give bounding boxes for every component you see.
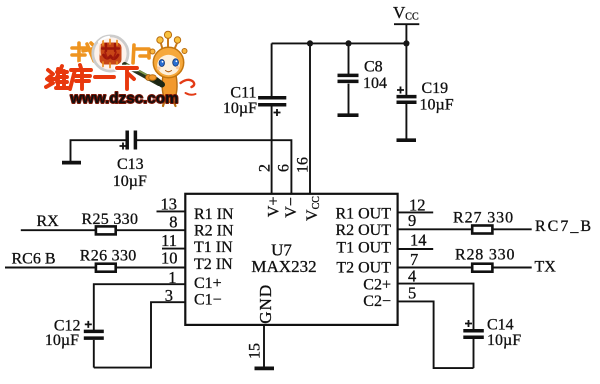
ground bar pin15 <box>255 366 275 370</box>
svg-text:V−: V− <box>283 197 300 218</box>
pin number 15 rotated <box>246 343 263 359</box>
chip icon inside magnifier <box>100 40 122 68</box>
svg-text:10µF: 10µF <box>45 332 79 349</box>
svg-text:RC7_B: RC7_B <box>535 218 593 235</box>
svg-text:10µF: 10µF <box>487 332 521 349</box>
resistor R28 <box>472 264 492 272</box>
wire C11 upper branch <box>271 43 273 96</box>
svg-text:TX: TX <box>535 258 557 275</box>
svg-text:R1 OUT: R1 OUT <box>335 206 391 223</box>
wire C19 branch <box>405 43 407 95</box>
svg-text:6: 6 <box>276 164 293 172</box>
plus sign C14 <box>465 320 472 327</box>
svg-text:C2+: C2+ <box>363 277 391 294</box>
svg-text:10: 10 <box>161 249 178 268</box>
wire C8 lower stem <box>348 84 350 114</box>
svg-text:T1 IN: T1 IN <box>194 239 233 256</box>
red characters wei ku yi xia <box>46 65 137 89</box>
IC pin name V- rotated <box>283 197 300 218</box>
plus sign C12 <box>85 321 92 328</box>
mascot arm <box>149 75 157 81</box>
wire pin9 to RC7_B <box>398 228 532 230</box>
wire C13 to pin6 V- <box>137 140 292 194</box>
wire C8 branch <box>348 43 350 74</box>
capacitor C8 plates <box>338 75 359 81</box>
wire C12 bottom stem <box>93 340 95 368</box>
svg-text:2: 2 <box>257 164 274 172</box>
pin number 2 rotated <box>257 164 274 172</box>
IC U7 box <box>185 194 397 325</box>
ground bar C19 <box>397 138 417 142</box>
wire GND pin15 <box>263 325 265 367</box>
capacitor C11 plates <box>258 98 286 105</box>
wire pin16 Vcc <box>309 43 311 193</box>
svg-text:T2 IN: T2 IN <box>194 256 233 273</box>
wire RC6B to pin10 <box>5 267 185 269</box>
svg-text:R2 IN: R2 IN <box>194 223 234 240</box>
capacitor C13 plates <box>127 131 135 150</box>
resistor R25 <box>96 226 116 234</box>
svg-text:C19: C19 <box>422 80 449 97</box>
svg-text:T2 OUT: T2 OUT <box>336 259 391 276</box>
wire pin11 stub <box>162 248 185 250</box>
svg-text:C8: C8 <box>364 58 383 75</box>
mascot head <box>153 47 183 77</box>
svg-text:R25 330: R25 330 <box>82 211 139 228</box>
svg-text:R28 330: R28 330 <box>455 247 515 264</box>
wire pin12 stub <box>398 211 434 213</box>
ground bar C8 <box>338 113 359 117</box>
svg-text:10µF: 10µF <box>113 173 147 190</box>
svg-text:C2−: C2− <box>363 293 391 310</box>
wire pin3 down and across <box>94 302 186 367</box>
svg-text:C13: C13 <box>117 156 144 173</box>
plus sign C13 <box>120 143 127 150</box>
wire pin13 stub <box>157 210 186 212</box>
mascot body <box>162 75 177 102</box>
capacitor C14 plates <box>463 331 484 337</box>
plus sign C11 <box>274 109 281 116</box>
svg-text:9: 9 <box>408 211 416 230</box>
IC pin name V+ rotated <box>266 197 283 218</box>
mascot side antennae <box>150 49 155 54</box>
svg-text:3: 3 <box>165 286 173 305</box>
logo watermark <box>46 31 196 107</box>
resistor R26 <box>96 264 116 272</box>
junction dot B <box>345 40 351 46</box>
wire pin4 to C14 top <box>398 284 474 330</box>
svg-text:R2 OUT: R2 OUT <box>335 222 391 239</box>
svg-text:13: 13 <box>161 194 178 213</box>
wire pin5 down and across <box>398 301 474 368</box>
svg-text:15: 15 <box>246 343 263 359</box>
svg-text:8: 8 <box>169 212 177 231</box>
svg-text:R27 330: R27 330 <box>453 210 514 227</box>
svg-text:GND: GND <box>256 284 275 324</box>
magnifier circle <box>93 36 128 71</box>
pin number 6 rotated <box>276 164 293 172</box>
resistor R27 <box>472 226 492 234</box>
wire C19 lower stem <box>405 104 407 139</box>
wire RX to pin8 <box>21 229 186 231</box>
red ribbon <box>181 80 195 87</box>
svg-text:www.dzsc.com: www.dzsc.com <box>69 90 178 107</box>
wire C14 bottom stem <box>473 339 475 368</box>
pen / magnifier handle <box>125 65 160 84</box>
plus sign C19 <box>397 87 404 94</box>
junction dot C <box>403 40 409 46</box>
svg-text:C1−: C1− <box>194 292 222 309</box>
svg-text:11: 11 <box>161 231 177 250</box>
junction dot A <box>307 40 313 46</box>
capacitor C12 plates <box>84 331 104 338</box>
svg-text:C14: C14 <box>487 316 514 333</box>
mascot crown balls <box>161 37 178 49</box>
wire top rail <box>272 42 407 44</box>
svg-text:V+: V+ <box>266 197 283 218</box>
svg-text:104: 104 <box>363 75 387 92</box>
wire Vcc stub down <box>405 24 407 43</box>
svg-text:RC6 B: RC6 B <box>12 251 56 268</box>
IC pin name Vcc rotated <box>304 196 322 221</box>
svg-text:5: 5 <box>408 284 416 303</box>
wire pin2 V+ <box>271 106 273 193</box>
Vcc power symbol bar <box>394 23 419 25</box>
char zhao (find) orange <box>72 43 96 61</box>
svg-text:C1+: C1+ <box>194 275 222 292</box>
svg-text:14: 14 <box>410 230 427 249</box>
svg-text:1: 1 <box>168 268 176 287</box>
wire C13 ground stem <box>71 140 126 162</box>
svg-text:10µF: 10µF <box>420 97 454 114</box>
svg-text:MAX232: MAX232 <box>251 257 316 276</box>
wire pin14 stub <box>398 248 434 250</box>
wire pin7 to TX <box>398 267 532 269</box>
char pian orange <box>133 45 149 63</box>
IC pin name GND rotated <box>256 284 275 324</box>
svg-text:R26 330: R26 330 <box>80 248 137 265</box>
svg-text:16: 16 <box>294 157 311 173</box>
pin number 16 rotated <box>294 157 311 173</box>
capacitor C19 plates <box>397 97 417 103</box>
wire pin1 to C12 top <box>94 284 186 330</box>
svg-text:R1 IN: R1 IN <box>194 206 234 223</box>
ground bar C13 <box>62 161 81 165</box>
svg-text:10µF: 10µF <box>223 100 257 117</box>
svg-text:T1 OUT: T1 OUT <box>336 240 391 257</box>
magnifier glint <box>99 37 109 42</box>
svg-text:RX: RX <box>37 213 60 230</box>
